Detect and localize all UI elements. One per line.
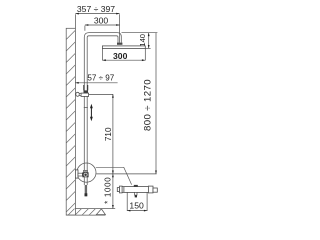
svg-text:57 ÷ 97: 57 ÷ 97 (87, 74, 114, 83)
pipe tick (84, 107, 88, 109)
bottom outlet (135, 192, 138, 195)
mixer valve body (82, 172, 88, 177)
detail view: mixer bar front (117, 185, 157, 198)
dimension 357 ÷ 397 (75, 4, 119, 43)
left end cap (120, 186, 123, 193)
dimension 57 ÷ 97 (75, 74, 117, 84)
left inlet stub (117, 188, 119, 192)
slider bracket box (81, 93, 89, 96)
shower head (side view) (102, 46, 145, 49)
wall hatch lines (66, 30, 75, 212)
holder neck (79, 93, 81, 95)
left ring (123, 187, 125, 193)
hand shower hose below mixer (85, 185, 87, 196)
svg-text:710: 710 (104, 127, 113, 141)
dimension 300 (top) (85, 16, 120, 31)
dimension 300 (under head) (102, 49, 145, 62)
svg-text:140: 140 (138, 34, 147, 47)
svg-text:357 ÷ 397: 357 ÷ 397 (77, 4, 115, 14)
svg-text:300: 300 (94, 16, 109, 26)
mixer wall flange (75, 170, 78, 178)
slider clamp dark band (84, 90, 89, 93)
holder extension line (89, 93, 114, 95)
right cap ring (148, 186, 153, 193)
dimension 140 (138, 33, 150, 49)
mixer body circle (84, 173, 87, 176)
mixer neck (78, 173, 82, 176)
shower head flange/nut (117, 43, 122, 45)
pipe coupling sleeve (84, 85, 88, 90)
riser pipe and shower arm (84, 33, 121, 185)
right knob (153, 188, 157, 192)
detail circle (77, 163, 96, 182)
leader line from circle to detail view (96, 167, 132, 184)
dimension * 1000 (103, 174, 114, 209)
floor level datum triangle (96, 209, 105, 215)
bar body (122, 187, 149, 193)
mixer top connection (83, 170, 87, 172)
svg-text:300: 300 (113, 51, 128, 61)
dimension 800 ÷ 1270 (143, 33, 157, 174)
dimension 710 (104, 94, 114, 173)
wall hatched strip (66, 28, 75, 215)
floor hatched strip (66, 209, 115, 216)
slide up-down arrow (90, 104, 93, 122)
svg-text:800 ÷ 1270: 800 ÷ 1270 (143, 79, 154, 131)
svg-text:150: 150 (129, 201, 144, 211)
extension line at arm top (122, 32, 158, 34)
dimension 150 (127, 193, 147, 212)
mixer level extension line (96, 173, 156, 175)
holder knob (76, 92, 80, 96)
extension line at head bottom right (145, 47, 150, 49)
svg-text:* 1000: * 1000 (103, 177, 112, 204)
top knob (134, 185, 138, 187)
floor hatch lines (68, 209, 96, 216)
